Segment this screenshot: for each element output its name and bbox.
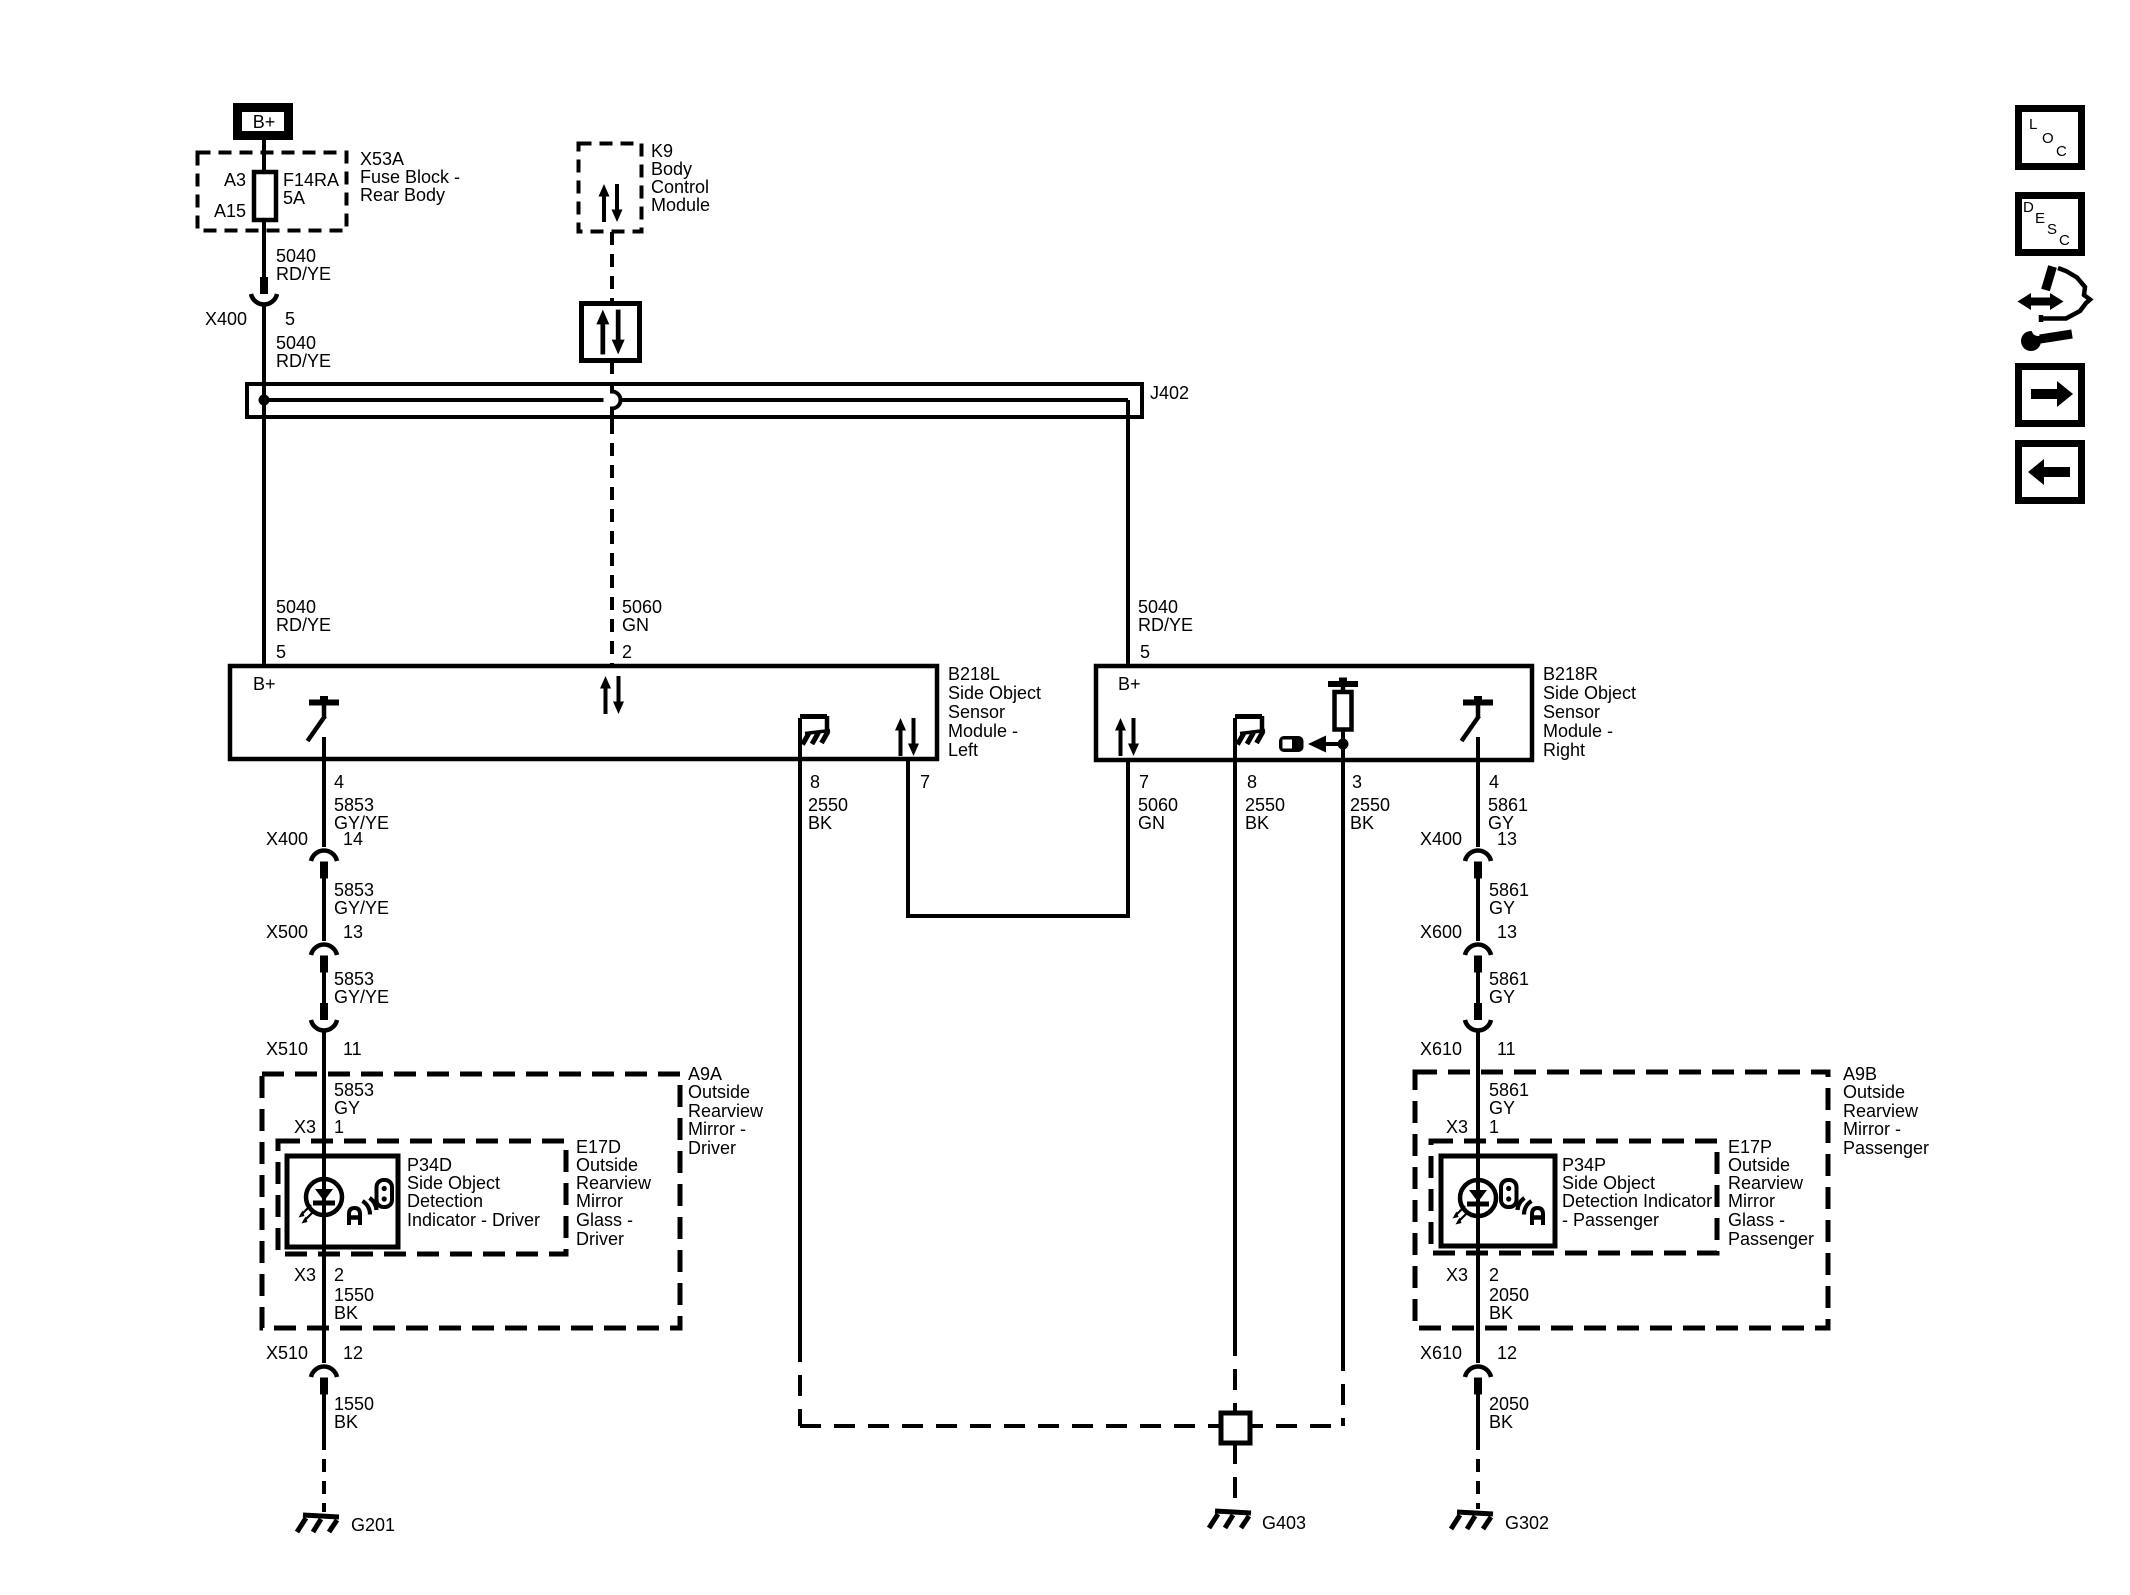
svg-text:G302: G302 xyxy=(1505,1513,1549,1533)
svg-text:RD/YE: RD/YE xyxy=(1138,615,1193,635)
svg-text:E17P: E17P xyxy=(1728,1137,1772,1157)
svg-text:1550: 1550 xyxy=(334,1285,374,1305)
svg-text:1: 1 xyxy=(334,1117,344,1137)
svg-text:Rearview: Rearview xyxy=(576,1173,652,1193)
svg-text:1550: 1550 xyxy=(334,1394,374,1414)
svg-text:2050: 2050 xyxy=(1489,1285,1529,1305)
svg-text:5: 5 xyxy=(285,309,295,329)
svg-text:Detection Indicator: Detection Indicator xyxy=(1562,1191,1712,1211)
svg-text:RD/YE: RD/YE xyxy=(276,264,331,284)
svg-text:Detection: Detection xyxy=(407,1191,483,1211)
svg-text:5853: 5853 xyxy=(334,969,374,989)
svg-text:Driver: Driver xyxy=(576,1229,624,1249)
svg-text:- Passenger: - Passenger xyxy=(1562,1210,1659,1230)
svg-text:Passenger: Passenger xyxy=(1728,1229,1814,1249)
svg-text:5A: 5A xyxy=(283,188,305,208)
svg-text:GY: GY xyxy=(1489,1098,1515,1118)
svg-text:Side Object: Side Object xyxy=(1562,1173,1655,1193)
svg-text:5060: 5060 xyxy=(622,597,662,617)
svg-text:BK: BK xyxy=(1489,1412,1513,1432)
svg-text:RD/YE: RD/YE xyxy=(276,351,331,371)
svg-text:11: 11 xyxy=(1497,1039,1516,1059)
svg-text:Outside: Outside xyxy=(576,1155,638,1175)
svg-text:A9A: A9A xyxy=(688,1064,722,1084)
svg-text:Right: Right xyxy=(1543,740,1585,760)
svg-text:Passenger: Passenger xyxy=(1843,1138,1929,1158)
svg-text:13: 13 xyxy=(343,922,363,942)
svg-text:GY/YE: GY/YE xyxy=(334,898,389,918)
svg-text:Module: Module xyxy=(651,195,710,215)
svg-text:2550: 2550 xyxy=(1350,795,1390,815)
svg-text:BK: BK xyxy=(1489,1303,1513,1323)
svg-text:X600: X600 xyxy=(1420,922,1462,942)
svg-text:5040: 5040 xyxy=(276,333,316,353)
svg-text:Rear Body: Rear Body xyxy=(360,185,445,205)
svg-text:Module -: Module - xyxy=(948,721,1018,741)
svg-text:2550: 2550 xyxy=(808,795,848,815)
svg-text:Glass -: Glass - xyxy=(1728,1210,1785,1230)
svg-text:BK: BK xyxy=(808,813,832,833)
svg-text:K9: K9 xyxy=(651,141,673,161)
svg-text:Outside: Outside xyxy=(688,1082,750,1102)
svg-text:11: 11 xyxy=(343,1039,362,1059)
svg-text:X510: X510 xyxy=(266,1343,308,1363)
svg-text:12: 12 xyxy=(343,1343,363,1363)
svg-text:BK: BK xyxy=(334,1303,358,1323)
svg-text:Driver: Driver xyxy=(688,1138,736,1158)
svg-text:2: 2 xyxy=(334,1265,344,1285)
svg-text:Mirror: Mirror xyxy=(576,1191,623,1211)
svg-text:1: 1 xyxy=(1489,1117,1499,1137)
svg-text:A3: A3 xyxy=(224,170,246,190)
svg-text:Sensor: Sensor xyxy=(1543,702,1600,722)
svg-text:X610: X610 xyxy=(1420,1343,1462,1363)
svg-text:GN: GN xyxy=(1138,813,1165,833)
svg-text:Side Object: Side Object xyxy=(1543,683,1636,703)
svg-text:Indicator - Driver: Indicator - Driver xyxy=(407,1210,540,1230)
svg-text:5040: 5040 xyxy=(1138,597,1178,617)
svg-text:X610: X610 xyxy=(1420,1039,1462,1059)
svg-text:5060: 5060 xyxy=(1138,795,1178,815)
svg-text:7: 7 xyxy=(920,772,930,792)
svg-text:E17D: E17D xyxy=(576,1137,621,1157)
svg-text:L: L xyxy=(2029,116,2037,133)
svg-text:X53A: X53A xyxy=(360,149,404,169)
svg-text:Glass -: Glass - xyxy=(576,1210,633,1230)
svg-text:BK: BK xyxy=(1245,813,1269,833)
svg-text:5861: 5861 xyxy=(1489,969,1529,989)
svg-text:Mirror -: Mirror - xyxy=(1843,1119,1901,1139)
svg-text:X3: X3 xyxy=(1446,1265,1468,1285)
svg-text:3: 3 xyxy=(1352,772,1362,792)
svg-text:RD/YE: RD/YE xyxy=(276,615,331,635)
svg-text:GY: GY xyxy=(334,1098,360,1118)
svg-text:X400: X400 xyxy=(205,309,247,329)
svg-text:A9B: A9B xyxy=(1843,1064,1877,1084)
svg-text:B218L: B218L xyxy=(948,664,1000,684)
svg-text:5861: 5861 xyxy=(1489,1080,1529,1100)
svg-text:5: 5 xyxy=(276,642,286,662)
svg-text:GY/YE: GY/YE xyxy=(334,987,389,1007)
svg-text:J402: J402 xyxy=(1150,383,1189,403)
svg-text:Mirror: Mirror xyxy=(1728,1191,1775,1211)
svg-text:BK: BK xyxy=(1350,813,1374,833)
svg-text:5040: 5040 xyxy=(276,246,316,266)
svg-text:C: C xyxy=(2056,143,2067,160)
svg-text:B+: B+ xyxy=(253,112,276,132)
svg-text:X3: X3 xyxy=(294,1117,316,1137)
svg-text:Sensor: Sensor xyxy=(948,702,1005,722)
svg-text:Outside: Outside xyxy=(1728,1155,1790,1175)
svg-text:P34D: P34D xyxy=(407,1155,452,1175)
svg-text:S: S xyxy=(2047,221,2057,238)
svg-text:X3: X3 xyxy=(1446,1117,1468,1137)
svg-text:5: 5 xyxy=(1140,642,1150,662)
svg-text:4: 4 xyxy=(334,772,344,792)
svg-text:8: 8 xyxy=(810,772,820,792)
svg-text:C: C xyxy=(2059,232,2070,249)
svg-text:D: D xyxy=(2023,199,2034,216)
svg-text:X3: X3 xyxy=(294,1265,316,1285)
svg-text:O: O xyxy=(2042,130,2054,147)
svg-text:B+: B+ xyxy=(253,674,276,694)
svg-text:Module -: Module - xyxy=(1543,721,1613,741)
svg-text:Fuse Block -: Fuse Block - xyxy=(360,167,460,187)
svg-text:2: 2 xyxy=(1489,1265,1499,1285)
svg-text:Rearview: Rearview xyxy=(688,1101,764,1121)
svg-text:Rearview: Rearview xyxy=(1843,1101,1919,1121)
svg-text:2550: 2550 xyxy=(1245,795,1285,815)
svg-text:Rearview: Rearview xyxy=(1728,1173,1804,1193)
svg-text:Side Object: Side Object xyxy=(407,1173,500,1193)
svg-text:G201: G201 xyxy=(351,1515,395,1535)
svg-text:F14RA: F14RA xyxy=(283,170,339,190)
svg-text:GY: GY xyxy=(1489,898,1515,918)
svg-text:5861: 5861 xyxy=(1488,795,1528,815)
svg-text:X500: X500 xyxy=(266,922,308,942)
svg-text:Outside: Outside xyxy=(1843,1082,1905,1102)
svg-text:2050: 2050 xyxy=(1489,1394,1529,1414)
svg-text:Left: Left xyxy=(948,740,978,760)
svg-text:14: 14 xyxy=(343,829,363,849)
svg-text:G403: G403 xyxy=(1262,1513,1306,1533)
svg-text:B218R: B218R xyxy=(1543,664,1598,684)
svg-text:BK: BK xyxy=(334,1412,358,1432)
svg-text:5861: 5861 xyxy=(1489,880,1529,900)
svg-text:Body: Body xyxy=(651,159,692,179)
svg-text:7: 7 xyxy=(1139,772,1149,792)
svg-text:X510: X510 xyxy=(266,1039,308,1059)
svg-text:Control: Control xyxy=(651,177,709,197)
svg-text:GN: GN xyxy=(622,615,649,635)
svg-text:8: 8 xyxy=(1247,772,1257,792)
svg-text:5853: 5853 xyxy=(334,1080,374,1100)
svg-text:E: E xyxy=(2035,210,2045,227)
svg-text:GY: GY xyxy=(1489,987,1515,1007)
svg-text:X400: X400 xyxy=(1420,829,1462,849)
svg-text:X400: X400 xyxy=(266,829,308,849)
svg-text:Side Object: Side Object xyxy=(948,683,1041,703)
svg-text:13: 13 xyxy=(1497,829,1517,849)
svg-text:5853: 5853 xyxy=(334,795,374,815)
svg-text:5853: 5853 xyxy=(334,880,374,900)
svg-text:P34P: P34P xyxy=(1562,1155,1606,1175)
svg-text:13: 13 xyxy=(1497,922,1517,942)
svg-text:4: 4 xyxy=(1489,772,1499,792)
svg-text:12: 12 xyxy=(1497,1343,1517,1363)
svg-text:B+: B+ xyxy=(1118,674,1141,694)
svg-text:2: 2 xyxy=(622,642,632,662)
svg-text:Mirror -: Mirror - xyxy=(688,1119,746,1139)
svg-text:A15: A15 xyxy=(214,201,246,221)
svg-text:5040: 5040 xyxy=(276,597,316,617)
